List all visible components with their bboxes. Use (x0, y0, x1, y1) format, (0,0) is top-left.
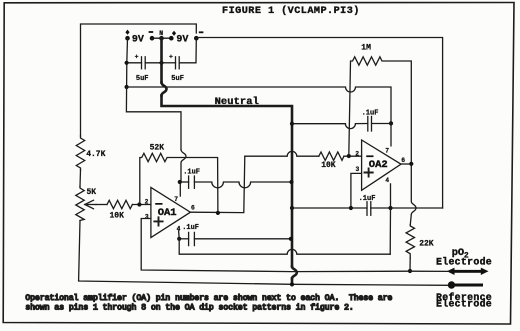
wire OA1 pin4 node down and right to OA2 pin4, bump over neutral (179, 239, 390, 254)
reference electrode bar with bullet (448, 281, 483, 288)
svg-text:.1uF: .1uF (182, 224, 199, 232)
svg-text:9V: 9V (132, 34, 144, 45)
svg-text:OA2: OA2 (369, 159, 388, 171)
wire OA1 pin3 left-down to pO2 row (141, 219, 409, 272)
junction 22K at pO2 line (408, 269, 412, 273)
svg-text:Electrode: Electrode (436, 299, 492, 310)
junction OA2 pin2 node (347, 154, 351, 158)
wire pO2 row right of 22K to arrow (409, 270, 448, 272)
wire 10K to OA2 pin2 (344, 155, 362, 157)
wire B1+ down / V+ vertical (126, 38, 129, 87)
capacitor C6 .1uF (OA1 bottom) (179, 224, 291, 246)
svg-text:Electrode: Electrode (436, 256, 492, 267)
wire OA1 pin4 down (178, 231, 181, 239)
svg-text:+: + (169, 53, 173, 60)
wire 22K to pO2 line (409, 258, 411, 271)
resistor R6 1M feedback (349, 44, 412, 164)
svg-text:6: 6 (401, 157, 405, 164)
svg-text:9V: 9V (176, 34, 188, 45)
svg-text:3: 3 (145, 213, 149, 220)
svg-text:Operational amplifier (OA) pin: Operational amplifier (OA) pin numbers a… (25, 294, 392, 303)
label pO2 (452, 247, 469, 260)
svg-text:.1uF: .1uF (183, 169, 200, 177)
svg-text:7: 7 (385, 147, 389, 154)
svg-text:shown as pins 1 through 8 on t: shown as pins 1 through 8 on the OA dip … (25, 303, 353, 312)
resistor R3 10K (OA1 input) (107, 200, 132, 208)
wiper arrow into 5K (85, 200, 107, 209)
svg-text:7: 7 (174, 196, 178, 203)
wire V+ rail: dot right, dip-hop at 1M-left, end down to OA2 pin7 (127, 87, 391, 146)
capacitor C4 .1uF (OA2 bottom) (359, 195, 391, 216)
resistor R5 10K (OA2 input) (319, 152, 344, 160)
op-amp OA2 (355, 140, 405, 190)
svg-text:FIGURE 1 (VCLAMP.PI3): FIGURE 1 (VCLAMP.PI3) (222, 5, 360, 17)
junction C1 left (125, 61, 129, 65)
svg-text:5uF: 5uF (171, 75, 184, 83)
svg-text:.1uF: .1uF (362, 110, 379, 118)
svg-text:+: + (135, 53, 139, 60)
junction OA1 pin2 node (137, 202, 141, 206)
wire rail neutral to cap4 (292, 207, 367, 209)
capacitor C1 5uF (127, 53, 162, 83)
junction OA1 pin4 node (177, 237, 181, 241)
wire V- rail top: B2- right then down right side (196, 38, 442, 209)
resistor R7 22K (406, 225, 414, 258)
svg-text:10K: 10K (110, 212, 125, 221)
wire 4.7K to pot (79, 170, 82, 187)
svg-text:2: 2 (145, 199, 149, 206)
wire row to 10K-2 with bump over neutral (245, 151, 319, 156)
junction N line at caps (159, 61, 163, 65)
junction OA1 pin7 (178, 180, 182, 184)
wire 10K to OA1 pin2 (132, 204, 151, 206)
wire OA1 output to corner and up (190, 156, 244, 212)
wire pot bottom to reference line (79, 221, 80, 281)
svg-text:52K: 52K (150, 144, 165, 153)
junction V+ rail (125, 85, 129, 89)
junction OA1 output (216, 211, 220, 215)
wire V- rail bottom row to OA2 pin4 (391, 207, 443, 209)
wire B2- down to cap2 (179, 38, 196, 63)
pO2 electrode arrow (double headed thick) (447, 268, 489, 275)
wire B1- to node N (152, 37, 171, 39)
junction neutral at reference line (290, 282, 294, 286)
wire rail pin7-cap to neutral with two dip hops (194, 182, 291, 188)
capacitor C2 5uF (162, 53, 184, 83)
svg-text:OA1: OA1 (158, 207, 177, 219)
wire reference line from pot bottom (79, 281, 449, 286)
potentiometer R2 5K (76, 187, 84, 221)
hop V+ vertical over 52K lead (181, 150, 186, 182)
wire OA2 pin3 to lower rail (351, 173, 362, 208)
svg-text:10K: 10K (321, 161, 336, 170)
op-amp OA1 (145, 187, 195, 237)
wire V+ branch down-right to OA1 pin7 (126, 87, 181, 150)
svg-text:4.7K: 4.7K (86, 150, 105, 159)
wire OA2 output to 1M vertical (401, 163, 411, 165)
junction neutral at OA2 cap rail (290, 122, 294, 126)
svg-text:.1uF: .1uF (359, 195, 376, 203)
battery B2 9V (169, 31, 203, 46)
wire OA1 pin7 up to V+ junction (179, 182, 181, 196)
svg-text:5K: 5K (87, 188, 97, 197)
svg-text:3: 3 (356, 166, 360, 173)
junction rail at neutral (289, 180, 293, 184)
wire OA2 pin4 vertical (389, 184, 391, 254)
capacitor C3 .1uF (OA1 top) (180, 169, 200, 189)
battery B1 9V (125, 30, 154, 46)
node N junction (159, 36, 164, 41)
junction OA2 pin4 node (388, 206, 392, 210)
svg-text:22K: 22K (419, 240, 434, 249)
svg-text:5uF: 5uF (136, 75, 149, 83)
resistor R4 52K feedback (140, 144, 218, 214)
svg-text:1M: 1M (361, 44, 371, 53)
hop 1M-right vertical over V- row, then to 22K (410, 164, 416, 225)
svg-text:4: 4 (385, 177, 389, 184)
svg-text:6: 6 (191, 205, 195, 212)
junction OA2 output (409, 162, 413, 166)
svg-text:2: 2 (355, 151, 359, 158)
junction neutral at pin3 rail (290, 206, 294, 210)
wire neutral thick: N down, hop over V+ rail, right, down to reference (162, 38, 297, 284)
junction OA2 pin3 at rail (349, 206, 353, 210)
junction OA2 pin7 at cap rail (389, 121, 393, 125)
wire battery box top rail (81, 24, 197, 136)
resistor R1 4.7K (76, 136, 84, 170)
svg-text:Neutral: Neutral (215, 96, 259, 108)
capacitor C5 .1uF (OA2 top) with dip hop over 1M-left (292, 110, 391, 131)
junction C6 at neutral (289, 237, 293, 241)
